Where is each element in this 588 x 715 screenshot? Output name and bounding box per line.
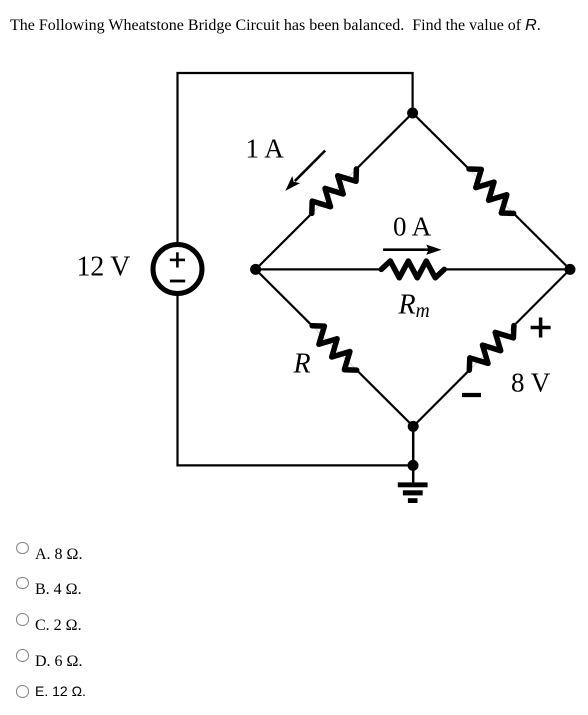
plus sign at 8V: [531, 318, 551, 338]
svg-text:0 A: 0 A: [393, 212, 432, 242]
faint centerlines under zigzags: [312, 169, 514, 370]
options: [15, 542, 415, 564]
minus sign at 8V: [462, 393, 481, 397]
wire bottom loop: source bottom to ground junction: [178, 294, 414, 466]
voltage source plus sign: [170, 252, 185, 267]
wire top loop: source top to top node: [178, 73, 413, 245]
current arrow 1 A: [285, 151, 325, 191]
resistor top-left arm (1 A): [256, 113, 413, 269]
node top: [407, 108, 418, 119]
svg-text:Rm: Rm: [398, 289, 430, 322]
svg-text:8 V: 8 V: [511, 368, 551, 398]
node left: [250, 264, 261, 275]
wire bridge bottom node down to ground: [412, 426, 415, 482]
resistor R bottom-left arm: [256, 269, 414, 426]
node bottom: [408, 421, 419, 432]
node right: [565, 264, 576, 275]
svg-text:12 V: 12 V: [77, 252, 131, 283]
svg-text:1 A: 1 A: [246, 134, 285, 164]
resistor bottom-right arm (8 V): [413, 269, 570, 426]
ground symbol: [398, 482, 428, 503]
resistor Rm middle: [256, 261, 570, 278]
voltage source V1 circle: [153, 245, 202, 294]
current arrow 0 A: [383, 245, 441, 255]
resistor top-right arm: [413, 113, 570, 269]
junction at ground wire: [408, 460, 419, 471]
svg-text:R: R: [293, 349, 311, 380]
voltage source minus sign: [170, 280, 185, 283]
